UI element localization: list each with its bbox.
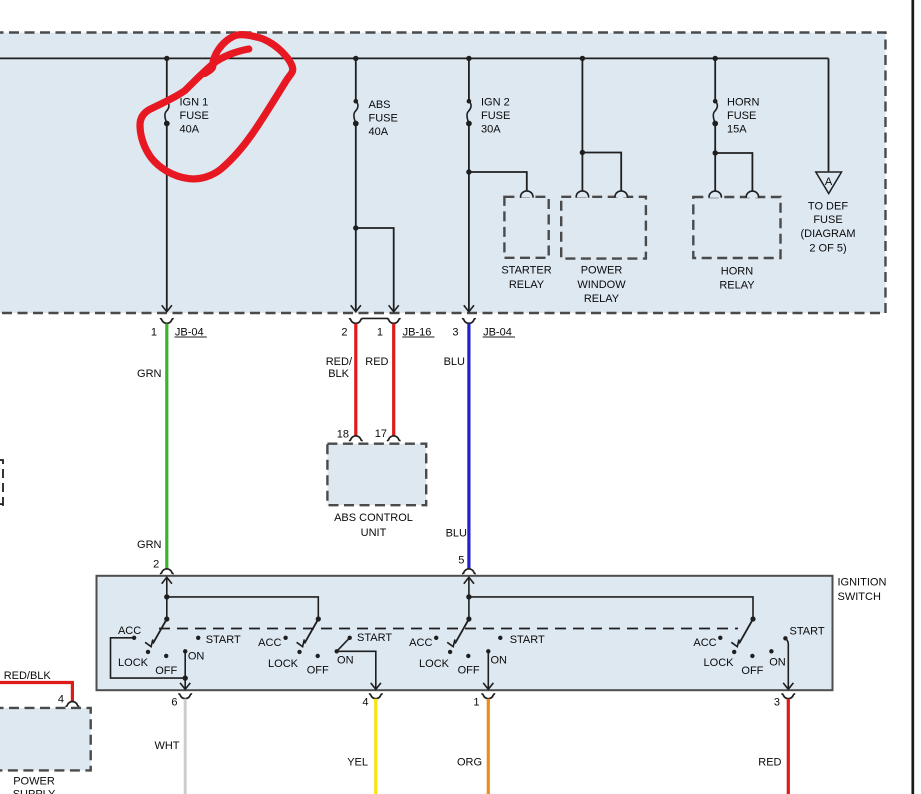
arrow sw1 exit [180,683,190,689]
label HORN RELAY [719,265,755,291]
page divider line right [911,0,914,794]
svg-text:STARTER: STARTER [501,265,551,277]
svg-text:5: 5 [458,554,464,566]
wire RED (pin 3) [787,699,790,794]
svg-text:2: 2 [153,559,159,571]
wire bus to horn fuse [714,58,716,101]
node IGN2 starter branch [466,169,471,174]
connector ignition pin 5 [458,554,476,573]
fuse box (dashed power distribution block) [0,33,886,314]
label POWER SUPPLY [13,775,56,794]
wire entry to sw3 pivot [468,577,470,619]
wire RED/BLK [354,324,357,436]
svg-text:2: 2 [341,327,347,339]
svg-text:BLK: BLK [328,368,349,380]
svg-text:SWITCH: SWITCH [838,591,881,603]
svg-text:ABS CONTROL: ABS CONTROL [334,512,413,524]
svg-text:FUSE: FUSE [180,110,209,122]
wire WHT [184,699,187,794]
svg-text:ON: ON [490,654,507,666]
fuse IGN 2 30A [466,97,510,136]
svg-text:(DIAGRAM: (DIAGRAM [801,228,856,240]
node bus/power window [580,56,585,61]
svg-text:OFF: OFF [741,665,763,677]
wire sw3 ON to pin 1 [487,651,489,689]
wire IGN2 fuse down to exit [468,124,470,312]
label TO DEF FUSE [801,200,856,254]
node bus/IGN2 [466,56,471,61]
connector JB-16 pins 2,1 [341,318,434,338]
svg-text:LOCK: LOCK [419,658,450,670]
terminal horn relay 1 [709,191,721,198]
connector ABS pin 18 [337,429,363,441]
node horn branch [713,150,718,155]
wire horn branch [715,153,752,191]
wire bus to power window relay [581,58,583,191]
svg-text:ACC: ACC [118,625,141,637]
node sw3 feed [466,594,471,599]
svg-text:YEL: YEL [347,756,368,768]
arrow IGN2 wire exit [464,305,474,311]
connector power supply pin 4 [58,694,79,707]
svg-text:ON: ON [337,654,354,666]
svg-text:ON: ON [769,657,786,669]
wire sw4 START to pin 3 [786,639,789,689]
svg-text:6: 6 [171,697,177,709]
connector ignition pin 6 [171,694,192,709]
ignition switch box [97,576,833,690]
svg-text:1: 1 [377,327,383,339]
off-page connector A triangle [816,172,842,194]
fuse ABS 40A [353,99,398,138]
svg-text:3: 3 [774,697,780,709]
svg-text:2 OF 5): 2 OF 5) [809,242,846,254]
svg-text:IGNITION: IGNITION [838,577,887,589]
horn relay box [693,197,780,258]
connector JB-04 pin 1 [151,319,207,339]
wire entry to sw1 pivot [166,577,168,619]
label POWER WINDOW RELAY [577,265,626,305]
terminal starter relay [521,191,533,198]
node bus/horn [713,56,718,61]
node power window branch [580,150,585,155]
svg-text:FUSE: FUSE [813,214,842,226]
switch 3 (ignition) [409,616,545,676]
svg-text:ORG: ORG [457,756,482,768]
svg-text:GRN: GRN [137,368,162,380]
terminal PW relay 2 [615,191,627,198]
wire sw3 feed to sw4 [469,597,753,619]
svg-text:FUSE: FUSE [481,110,510,122]
wire YEL [374,699,377,794]
fuse IGN 1 40A [164,97,209,136]
svg-text:RED: RED [365,356,388,368]
switch 2 (ignition) [258,616,392,676]
node bus/ABS [353,56,358,61]
label ABS CONTROL UNIT [334,512,413,539]
wire sw2 ON to pin 4 [337,651,376,689]
wire power window branch [582,153,621,192]
svg-text:ACC: ACC [693,637,716,649]
wire GRN (IGN1 to ignition switch) [165,324,168,569]
svg-text:3: 3 [452,327,458,339]
wire sw1 ON to output [184,651,186,689]
svg-text:OFF: OFF [307,664,329,676]
svg-text:4: 4 [58,694,64,706]
svg-text:17: 17 [375,428,387,440]
arrow ABS branch exit [389,305,399,311]
wire sw2 START to ON link [337,638,350,652]
svg-text:1: 1 [473,697,479,709]
wire bus to IGN2 fuse [468,58,470,101]
wire bus to DEF fuse tap [828,58,830,171]
svg-text:40A: 40A [180,124,200,136]
svg-text:15A: 15A [727,124,747,136]
svg-text:FUSE: FUSE [727,110,756,122]
arrow sw4 exit [783,683,793,689]
svg-text:LOCK: LOCK [118,657,149,669]
wire bus to IGN1 fuse [166,58,168,101]
terminal PW relay 1 [576,191,588,198]
svg-text:ACC: ACC [258,637,281,649]
svg-text:START: START [206,634,241,646]
svg-text:HORN: HORN [727,97,759,109]
node sw1 output junction [183,675,188,680]
svg-text:RELAY: RELAY [584,293,620,305]
svg-text:SUPPLY: SUPPLY [13,788,56,794]
svg-text:RELAY: RELAY [509,279,545,291]
svg-text:FUSE: FUSE [369,113,398,125]
wire RED [392,324,395,436]
svg-text:START: START [790,625,825,637]
svg-text:LOCK: LOCK [704,657,735,669]
svg-text:GRN: GRN [137,539,162,551]
svg-text:IGN 1: IGN 1 [180,97,209,109]
node ABS branch [353,225,358,230]
switch 4 (ignition) [693,616,824,677]
wire sw1 ACC+ON to pin 6 [111,638,186,678]
label IGNITION SWITCH [838,577,887,604]
wire horn fuse to horn relay [714,124,716,192]
connector JB-04 pin 3 [452,319,515,339]
wire ABS branch to second pin [356,228,394,311]
wire sw1 feed to sw2 [167,597,318,619]
svg-text:A: A [825,176,833,188]
arrow ABS wire exit [351,305,361,311]
arrow IGN1 wire exit [162,305,172,311]
wire bus to ABS fuse [355,58,357,101]
dashed mechanical linkage line [159,628,738,630]
svg-text:BLU: BLU [444,356,465,368]
arrow ignition entry pin5 [464,577,474,583]
svg-text:RED/: RED/ [326,356,353,368]
svg-text:4: 4 [362,697,368,709]
svg-text:30A: 30A [481,124,501,136]
svg-text:TO DEF: TO DEF [808,200,848,212]
wire to starter relay [469,172,527,191]
wire RED/BLK to power supply [0,683,72,702]
connector ignition pin 1 [473,694,495,709]
connector ignition pin 4 [362,694,382,709]
wire ABS fuse down [355,124,357,312]
svg-text:40A: 40A [369,126,389,138]
svg-text:POWER: POWER [581,265,623,277]
wire BLU (IGN2 to ignition switch) [467,324,470,569]
svg-text:HORN: HORN [721,265,753,277]
starter relay box [504,197,548,258]
svg-text:1: 1 [151,327,157,339]
svg-text:WHT: WHT [154,740,179,752]
wire IGN1 fuse to JB-04 pin1 [166,124,168,312]
svg-text:POWER: POWER [13,775,55,787]
terminal horn relay 2 [746,191,758,198]
svg-text:RELAY: RELAY [719,279,755,291]
fuse HORN 15A [712,97,759,136]
ABS control unit box [327,444,426,506]
svg-text:OFF: OFF [458,664,480,676]
node sw1 feed [164,594,169,599]
switch 1 (ignition) [118,616,241,677]
svg-text:ACC: ACC [409,637,432,649]
svg-text:ABS: ABS [369,99,391,111]
svg-text:BLU: BLU [446,527,467,539]
svg-text:START: START [510,634,545,646]
svg-text:START: START [357,632,392,644]
wire (main battery bus) [0,57,829,59]
power window relay box [561,197,646,259]
connector ignition pin 3 [774,694,795,709]
svg-text:OFF: OFF [155,665,177,677]
svg-text:RED: RED [758,756,781,768]
svg-text:RED/BLK: RED/BLK [4,670,52,682]
svg-text:IGN 2: IGN 2 [481,97,510,109]
label STARTER RELAY [501,265,551,291]
power supply box [0,708,91,771]
svg-text:18: 18 [337,429,349,441]
annotation red circle around IGN 1 fuse [140,35,293,179]
label RED/BLK [326,356,353,380]
arrow sw2 exit [371,683,381,689]
svg-text:WINDOW: WINDOW [577,279,626,291]
arrow sw3 exit [483,683,493,689]
wire ORG [487,699,490,794]
svg-text:UNIT: UNIT [361,527,387,539]
partial dashed box left edge [0,460,3,505]
node bus/IGN1 [164,56,169,61]
connector ignition pin 2 [153,559,174,574]
svg-text:ON: ON [188,651,205,663]
connector ABS pin 17 [375,428,401,440]
svg-text:LOCK: LOCK [268,658,299,670]
arrow ignition entry pin2 [162,577,172,583]
